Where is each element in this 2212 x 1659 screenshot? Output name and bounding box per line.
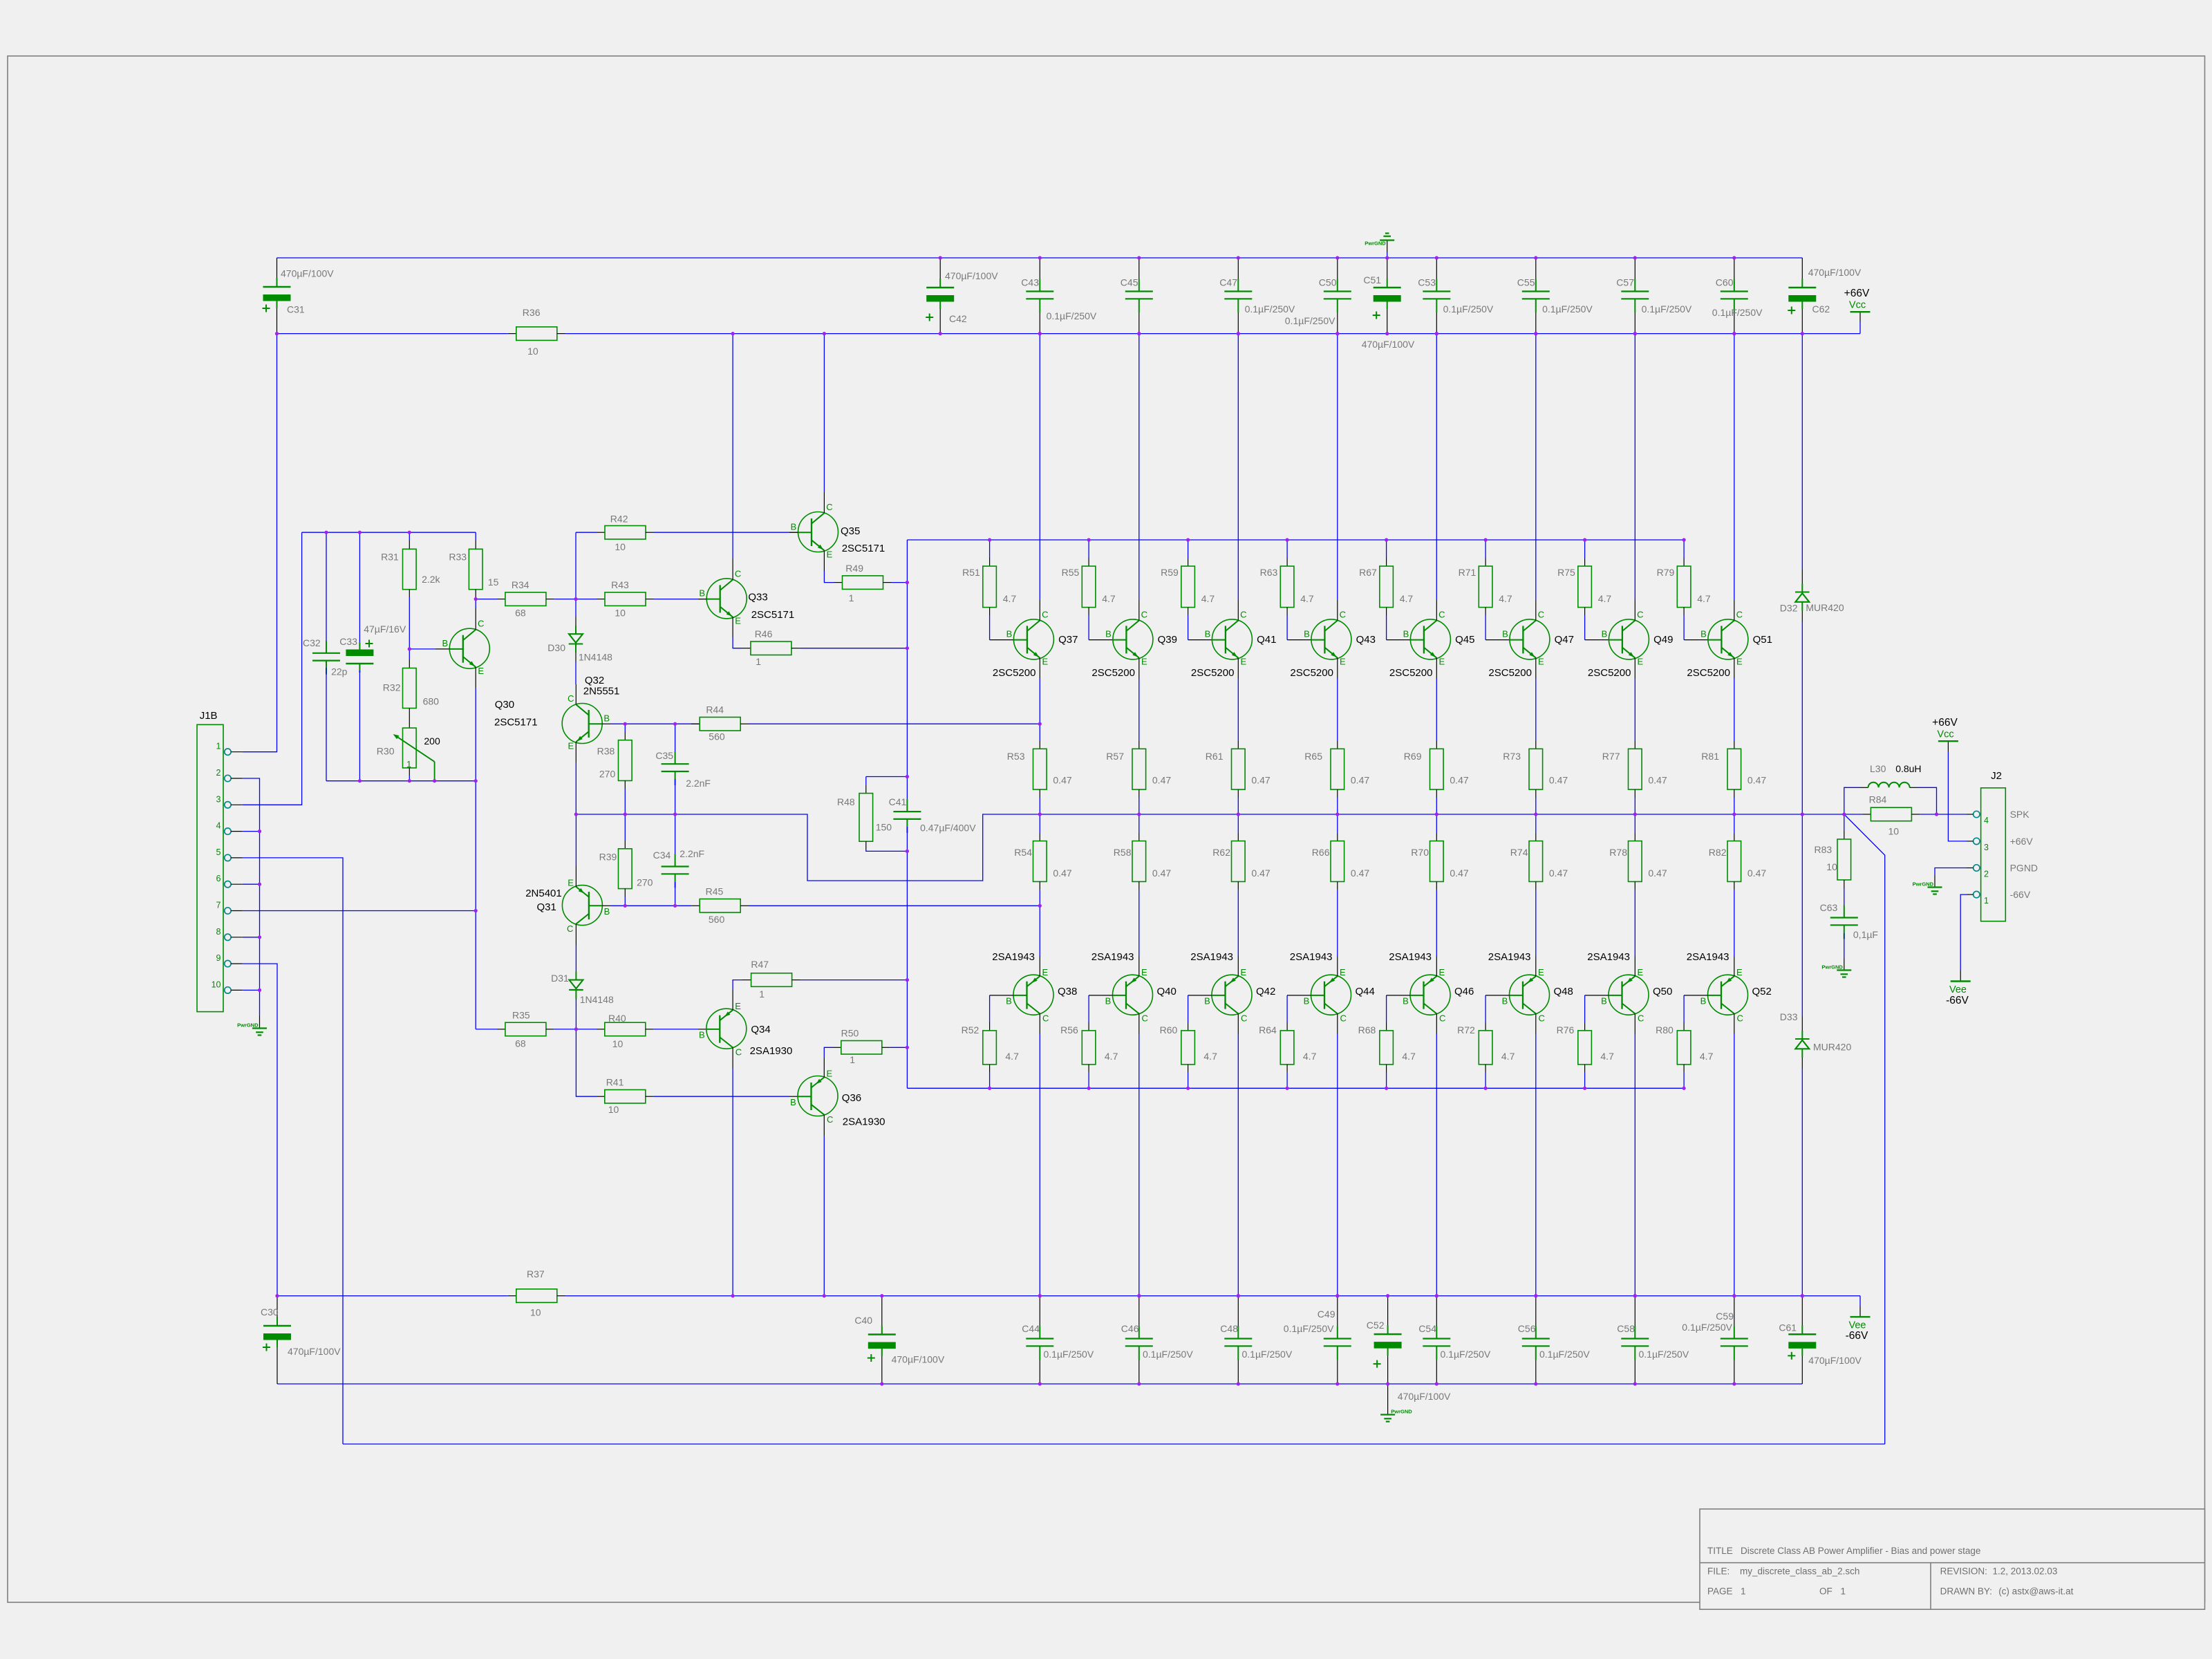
svg-text:0.1µF/250V: 0.1µF/250V	[1143, 1349, 1193, 1360]
power ground top (PwrGND)	[1387, 241, 1388, 254]
svg-text:10: 10	[527, 346, 538, 357]
junction Q48 collector at Vee rail	[0, 0, 1, 1]
pin 2 J2	[1974, 865, 1980, 871]
svg-text:C60: C60	[1716, 277, 1734, 288]
junction C49 bottom	[0, 0, 1, 1]
svg-text:Q47: Q47	[1555, 634, 1574, 646]
junction C58 top	[0, 0, 1, 1]
resistor R67	[1386, 540, 1387, 558]
svg-text:C: C	[1538, 609, 1544, 619]
svg-text:B: B	[1006, 996, 1012, 1006]
capacitor C62	[1801, 258, 1803, 288]
junction R51 top	[0, 0, 1, 1]
svg-text:C57: C57	[1616, 277, 1634, 288]
svg-text:B: B	[791, 521, 797, 532]
svg-text:68: 68	[515, 608, 526, 619]
svg-text:2SC5200: 2SC5200	[1687, 667, 1730, 679]
svg-text:0.1µF/250V: 0.1µF/250V	[1285, 315, 1335, 326]
svg-text:470µF/100V: 470µF/100V	[1808, 267, 1862, 278]
svg-text:C50: C50	[1319, 277, 1337, 288]
transistor Q37	[1013, 619, 1053, 659]
svg-text:C53: C53	[1418, 277, 1436, 288]
svg-text:2SC5200: 2SC5200	[1389, 667, 1433, 679]
svg-text:Q37: Q37	[1058, 634, 1078, 646]
resistor R70	[1436, 814, 1437, 833]
svg-text:E: E	[1240, 967, 1246, 977]
svg-text:Q46: Q46	[1454, 986, 1474, 997]
wire Vcc rail left segment	[277, 333, 508, 335]
svg-text:Q45: Q45	[1455, 634, 1474, 646]
pin 2 J1B	[225, 775, 231, 781]
svg-text:68: 68	[515, 1038, 526, 1049]
svg-text:R33: R33	[449, 552, 467, 563]
transistor Q40	[1113, 975, 1153, 1015]
svg-text:B: B	[1304, 996, 1310, 1006]
junction C42 top	[0, 0, 1, 1]
svg-text:2SC5200: 2SC5200	[993, 667, 1036, 679]
svg-text:Discrete Class AB Power Amplif: Discrete Class AB Power Amplifier - Bias…	[1741, 1546, 1980, 1556]
capacitor C43	[1039, 258, 1040, 292]
junction R84 right node	[0, 0, 1, 1]
junction C35/C34 node	[0, 0, 1, 1]
svg-text:-66V: -66V	[1846, 1330, 1868, 1342]
svg-text:4.7: 4.7	[1501, 1051, 1515, 1062]
diode D33	[1801, 814, 1803, 1016]
svg-text:4.7: 4.7	[1697, 593, 1711, 604]
svg-text:0.47: 0.47	[1450, 868, 1468, 879]
junction C48 bottom	[0, 0, 1, 1]
svg-text:0.47: 0.47	[1351, 868, 1369, 879]
svg-text:C31: C31	[287, 304, 305, 315]
svg-text:(c) astx@aws-it.at: (c) astx@aws-it.at	[1998, 1586, 2073, 1597]
wire J1B pin5 to feedback line	[243, 858, 343, 1444]
resistor R66	[1337, 814, 1338, 833]
svg-text:Q42: Q42	[1256, 986, 1275, 997]
svg-text:4.7: 4.7	[1600, 1051, 1614, 1062]
svg-text:Q39: Q39	[1158, 634, 1177, 646]
Vee symbol at J2	[1960, 894, 1967, 971]
junction R72 bottom	[0, 0, 1, 1]
svg-text:B: B	[790, 1097, 796, 1107]
junction Q46 collector at Vee rail	[0, 0, 1, 1]
transistor Q48	[1510, 975, 1550, 1015]
wire J1B pin9 to Vee node	[243, 964, 277, 1296]
svg-text:10: 10	[608, 1104, 619, 1115]
diode D32	[1801, 334, 1803, 570]
junction C57 bottom	[0, 0, 1, 1]
resistor R47	[751, 973, 792, 987]
resistor R84	[1844, 814, 1863, 815]
svg-text:R64: R64	[1259, 1024, 1277, 1035]
capacitor C54	[1436, 1296, 1437, 1339]
svg-text:R48: R48	[837, 796, 855, 807]
resistor R71	[1485, 540, 1486, 558]
svg-text:E: E	[826, 1068, 832, 1078]
svg-text:Q30: Q30	[495, 699, 514, 711]
svg-text:C33: C33	[339, 636, 357, 647]
junction C59 top	[0, 0, 1, 1]
junction Q30 base node	[0, 0, 1, 1]
junction output rail col 7	[0, 0, 1, 1]
svg-text:R32: R32	[383, 682, 401, 693]
junction R44 right at Q37 emitter column	[0, 0, 1, 1]
svg-text:D31: D31	[551, 973, 569, 984]
resistor R58	[1138, 814, 1140, 833]
wire bottom feedback line	[343, 1443, 1885, 1445]
svg-text:C44: C44	[1022, 1323, 1040, 1334]
svg-text:B: B	[603, 713, 610, 723]
svg-text:470µF/100V: 470µF/100V	[1398, 1391, 1451, 1402]
transistor Q39	[1113, 619, 1153, 659]
svg-text:R63: R63	[1260, 567, 1278, 578]
svg-text:R43: R43	[611, 579, 629, 590]
junction C30 top	[0, 0, 1, 1]
svg-text:C: C	[1340, 1013, 1347, 1024]
svg-text:2SA1943: 2SA1943	[1290, 951, 1333, 963]
junction C60 bottom	[0, 0, 1, 1]
Vcc symbol +66V top right	[1859, 312, 1861, 322]
capacitor C60	[1734, 258, 1735, 292]
svg-text:R42: R42	[610, 514, 628, 525]
svg-text:C: C	[735, 1047, 742, 1058]
svg-text:Q36: Q36	[842, 1092, 861, 1104]
svg-text:R50: R50	[841, 1028, 859, 1039]
resistor R73	[1535, 741, 1537, 749]
svg-text:R83: R83	[1815, 844, 1833, 855]
junction Q50 collector at Vee rail	[0, 0, 1, 1]
svg-text:J2: J2	[1991, 770, 2002, 782]
transistor Q32	[562, 704, 602, 744]
svg-text:C30: C30	[261, 1306, 279, 1318]
svg-text:0.1µF/250V: 0.1µF/250V	[1245, 303, 1295, 315]
junction Q36 collector at Vee rail	[0, 0, 1, 1]
svg-text:B: B	[1105, 629, 1112, 639]
svg-text:470µF/100V: 470µF/100V	[945, 270, 998, 281]
svg-text:4.7: 4.7	[1105, 1051, 1118, 1062]
svg-text:1: 1	[756, 656, 761, 667]
svg-text:2SC5171: 2SC5171	[842, 543, 885, 554]
svg-text:E: E	[568, 877, 574, 888]
svg-text:8: 8	[216, 927, 221, 937]
capacitor C34	[675, 814, 676, 859]
resistor R42	[576, 532, 597, 533]
svg-text:TITLE: TITLE	[1707, 1546, 1733, 1556]
svg-text:R71: R71	[1459, 567, 1477, 578]
svg-text:2SA1943: 2SA1943	[1687, 951, 1730, 963]
junction C33 top bus	[0, 0, 1, 1]
junction output rail col 8	[0, 0, 1, 1]
svg-text:C51: C51	[1363, 274, 1381, 285]
svg-text:R76: R76	[1557, 1024, 1575, 1035]
junction dots overlay	[258, 256, 1938, 1385]
svg-text:E: E	[478, 666, 484, 676]
wire input top bus	[302, 532, 476, 533]
capacitor C35	[675, 724, 676, 756]
resistor R78	[1634, 814, 1635, 833]
svg-text:1: 1	[406, 759, 411, 769]
svg-text:2SC5200: 2SC5200	[1588, 667, 1631, 679]
svg-text:E: E	[1736, 657, 1743, 667]
svg-text:R51: R51	[962, 567, 980, 578]
junction R47 right	[0, 0, 1, 1]
svg-text:2SA1930: 2SA1930	[843, 1116, 885, 1128]
svg-text:D33: D33	[1780, 1011, 1798, 1022]
capacitor C52	[1387, 1296, 1389, 1335]
svg-text:Q43: Q43	[1356, 634, 1376, 646]
svg-text:2.2k: 2.2k	[422, 574, 440, 585]
resistor R41	[597, 1096, 605, 1097]
svg-text:C46: C46	[1121, 1323, 1139, 1334]
svg-text:0.1µF/250V: 0.1µF/250V	[1441, 1349, 1491, 1360]
wire Vee rail left segment	[277, 1295, 508, 1297]
svg-text:R77: R77	[1602, 751, 1620, 762]
capacitor C49	[1337, 1296, 1338, 1339]
svg-text:0.47: 0.47	[1648, 868, 1667, 879]
capacitor C41	[866, 776, 908, 778]
pin 3 J1B	[225, 802, 231, 808]
svg-text:B: B	[1700, 629, 1707, 639]
junction R76 bottom	[0, 0, 1, 1]
svg-text:2N5401: 2N5401	[525, 888, 562, 899]
svg-text:D30: D30	[547, 642, 565, 653]
svg-text:2SA1943: 2SA1943	[1488, 951, 1531, 963]
svg-text:4.7: 4.7	[1303, 1051, 1317, 1062]
svg-text:MUR420: MUR420	[1813, 1042, 1851, 1053]
svg-text:4.7: 4.7	[1598, 593, 1612, 604]
wire bottom ground rail	[277, 1383, 1802, 1385]
ground J1B (PwrGND)	[259, 1015, 261, 1029]
svg-text:-66V: -66V	[2010, 889, 2031, 900]
svg-text:Vee: Vee	[1949, 984, 1967, 995]
wire output rail	[1040, 814, 1844, 815]
junction C47 top	[0, 0, 1, 1]
capacitor C44	[1039, 1296, 1040, 1339]
svg-text:4.7: 4.7	[1402, 1051, 1416, 1062]
svg-text:R37: R37	[527, 1268, 545, 1280]
wire J1B pin3 to input bus	[243, 532, 302, 805]
svg-text:C42: C42	[949, 313, 967, 324]
junction R38 top	[0, 0, 1, 1]
junction D32 at output rail	[0, 0, 1, 1]
svg-text:PAGE: PAGE	[1707, 1586, 1733, 1597]
svg-text:E: E	[1637, 657, 1643, 667]
resistor R37	[508, 1295, 516, 1297]
resistor R46	[742, 648, 751, 649]
junction C41 top	[0, 0, 1, 1]
junction Q34 collector at Vee rail	[0, 0, 1, 1]
wire VAS output bus	[576, 814, 1040, 881]
svg-text:E: E	[1736, 967, 1743, 977]
capacitor C58	[1634, 1296, 1635, 1339]
wire J1B pin10	[243, 989, 260, 991]
junction R50 right	[0, 0, 1, 1]
junction C45 top	[0, 0, 1, 1]
resistor R44	[691, 723, 700, 724]
junction R79 top	[0, 0, 1, 1]
junction C48 top	[0, 0, 1, 1]
svg-text:B: B	[1502, 629, 1508, 639]
junction C33 bottom bus	[0, 0, 1, 1]
junction output rail col 4	[0, 0, 1, 1]
svg-text:0.47: 0.47	[1450, 775, 1468, 786]
transistor Q42	[1212, 975, 1252, 1015]
ground C63 (PwrGND)	[1844, 958, 1845, 971]
wire J1B pin1 to Vcc node	[243, 334, 277, 752]
svg-text:Q40: Q40	[1157, 986, 1177, 997]
svg-text:0.47: 0.47	[1152, 868, 1171, 879]
resistor R35	[476, 1029, 497, 1030]
resistor R56	[1088, 995, 1089, 1022]
junction R55 top	[0, 0, 1, 1]
junction L30 left node	[0, 0, 1, 1]
svg-text:R36: R36	[523, 307, 541, 318]
svg-text:1N4148: 1N4148	[580, 994, 614, 1005]
capacitor C51	[1387, 258, 1388, 288]
svg-text:R84: R84	[1869, 794, 1887, 805]
svg-text:+66V: +66V	[1932, 717, 1958, 729]
junction C45 bottom	[0, 0, 1, 1]
svg-text:C: C	[1141, 609, 1147, 619]
junction C56 top	[0, 0, 1, 1]
svg-text:4.7: 4.7	[1102, 593, 1116, 604]
svg-text:1: 1	[849, 592, 854, 603]
junction C41 bottom node	[0, 0, 1, 1]
resistor R43	[576, 599, 597, 600]
svg-text:E: E	[1042, 967, 1048, 977]
junction C62 bottom	[0, 0, 1, 1]
svg-text:R81: R81	[1701, 751, 1719, 762]
svg-text:150: 150	[876, 822, 892, 833]
svg-text:270: 270	[599, 769, 616, 780]
transistor Q46	[1410, 975, 1450, 1015]
svg-text:R75: R75	[1557, 567, 1575, 578]
junction C31 bottom	[0, 0, 1, 1]
transistor Q50	[1609, 975, 1649, 1015]
wire J1B pin8	[243, 937, 260, 938]
transistor Q35	[798, 512, 838, 552]
svg-text:4: 4	[1984, 816, 1989, 825]
svg-text:2SA1943: 2SA1943	[1587, 951, 1630, 963]
transistor Q49	[1609, 619, 1649, 659]
junction C42 bottom	[0, 0, 1, 1]
svg-text:R59: R59	[1161, 567, 1179, 578]
svg-text:E: E	[1438, 967, 1445, 977]
svg-text:B: B	[1602, 629, 1608, 639]
svg-text:C43: C43	[1021, 277, 1039, 288]
junction C50 top	[0, 0, 1, 1]
transistor Q34	[706, 1009, 747, 1049]
junction C43 bottom	[0, 0, 1, 1]
transistor Q31	[562, 885, 602, 926]
junction R75 top	[0, 0, 1, 1]
svg-text:DRAWN BY:: DRAWN BY:	[1940, 1586, 1992, 1597]
svg-text:C: C	[1736, 609, 1743, 619]
resistor R45	[691, 905, 700, 906]
svg-text:470µF/100V: 470µF/100V	[281, 268, 334, 279]
svg-text:R30: R30	[377, 746, 395, 757]
svg-text:E: E	[1637, 967, 1643, 977]
svg-text:R53: R53	[1007, 751, 1025, 762]
svg-text:R54: R54	[1014, 847, 1032, 858]
svg-text:R68: R68	[1358, 1024, 1376, 1035]
trimpot R30	[403, 728, 417, 768]
svg-text:E: E	[1340, 967, 1346, 977]
svg-text:C41: C41	[889, 796, 907, 807]
svg-text:0.1µF/250V: 0.1µF/250V	[1642, 303, 1692, 315]
svg-text:Q38: Q38	[1058, 986, 1077, 997]
connector J2	[1981, 788, 2006, 921]
svg-text:PGND: PGND	[2010, 863, 2038, 874]
junction pin6	[0, 0, 1, 1]
svg-text:C62: C62	[1812, 303, 1830, 315]
resistor R76	[1584, 995, 1586, 1022]
resistor R52	[989, 995, 991, 1022]
svg-text:B: B	[1403, 629, 1409, 639]
capacitor C63	[1844, 910, 1845, 918]
resistor R38	[624, 724, 626, 732]
svg-text:10: 10	[615, 541, 626, 552]
capacitor C53	[1436, 258, 1437, 292]
svg-text:E: E	[1538, 657, 1544, 667]
svg-text:C: C	[1042, 1013, 1049, 1024]
resistor R39	[624, 814, 626, 841]
junction C46 bottom	[0, 0, 1, 1]
svg-text:1: 1	[759, 988, 765, 1000]
wire J1B pin7 to Q30 emitter	[243, 910, 476, 912]
svg-text:E: E	[1340, 657, 1346, 667]
svg-text:Q31: Q31	[537, 901, 556, 913]
resistor R31	[409, 532, 410, 541]
resistor R36	[508, 333, 516, 335]
junction pin10	[0, 0, 1, 1]
junction bus end Q30E	[0, 0, 1, 1]
svg-text:C: C	[1638, 1013, 1644, 1024]
junction R59 top	[0, 0, 1, 1]
svg-text:680: 680	[423, 696, 440, 707]
svg-text:2SA1943: 2SA1943	[992, 951, 1035, 963]
svg-text:C: C	[567, 924, 573, 934]
power ground bottom (PwrGND)	[1387, 1384, 1389, 1415]
capacitor C55	[1535, 258, 1537, 292]
transistor Q30	[449, 628, 489, 668]
wire feedback to bottom line	[1844, 814, 1885, 1444]
svg-text:MUR420: MUR420	[1806, 602, 1844, 613]
svg-text:R70: R70	[1411, 847, 1429, 858]
wire J1B pin6	[243, 883, 260, 885]
capacitor C61	[1801, 1296, 1803, 1335]
resistor R54	[1039, 814, 1040, 833]
svg-text:4.7: 4.7	[1300, 593, 1314, 604]
junction C44 bottom	[0, 0, 1, 1]
svg-text:C: C	[1438, 609, 1445, 619]
svg-text:+66V: +66V	[1844, 288, 1870, 299]
svg-text:0.47: 0.47	[1351, 775, 1369, 786]
junction C59 bottom	[0, 0, 1, 1]
junction C44 top	[0, 0, 1, 1]
svg-text:C49: C49	[1318, 1309, 1335, 1320]
svg-text:10: 10	[1888, 826, 1900, 837]
svg-text:R49: R49	[845, 563, 863, 574]
svg-text:1: 1	[850, 1054, 855, 1065]
pin 1 J2	[1974, 891, 1980, 897]
svg-text:R60: R60	[1160, 1024, 1178, 1035]
svg-text:0,1µF: 0,1µF	[1853, 929, 1878, 940]
svg-text:E: E	[1438, 657, 1445, 667]
svg-text:10: 10	[612, 1038, 624, 1049]
wire R42 branch	[575, 532, 577, 599]
junction C55 bottom	[0, 0, 1, 1]
capacitor C59	[1734, 1296, 1735, 1339]
